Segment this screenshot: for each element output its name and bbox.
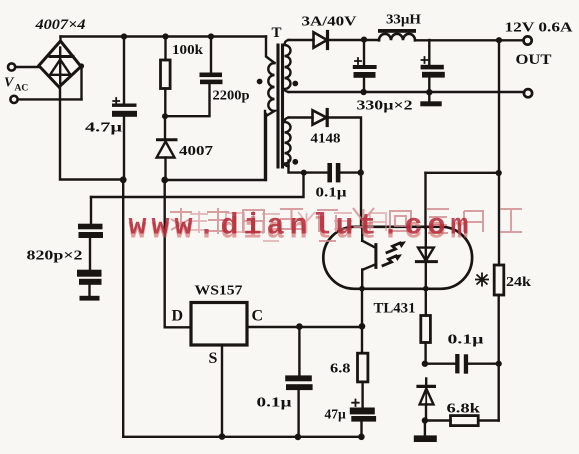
asterisk mark for 24k: [475, 273, 489, 287]
capacitor 820p upper: [78, 224, 103, 238]
node junction: [359, 323, 366, 330]
node junction: [162, 33, 168, 39]
wire 6.8k to anode node: [425, 419, 451, 421]
wire C4 bottom: [363, 78, 365, 92]
wire drain node to primary bottom: [165, 111, 265, 180]
ground 820p end bar: [80, 296, 100, 301]
opto light arrow 1: [387, 241, 406, 252]
wire opto emitter down to C pin net: [361, 289, 363, 327]
svg-text:0.1µ: 0.1µ: [316, 185, 347, 200]
wire D pin: [165, 326, 191, 328]
node junction: [208, 33, 214, 39]
wire primary bottom: [265, 114, 267, 180]
wire rail to R1: [164, 37, 166, 61]
transformer secondary winding S2 feedback: [285, 118, 291, 167]
node junction ref: [422, 361, 428, 367]
capacitor 330u first: [353, 58, 377, 78]
wire S1 top to D3: [289, 39, 314, 41]
wire D3 to L1: [328, 39, 380, 41]
node junction: [162, 113, 168, 119]
wire C2 bottom down: [123, 117, 125, 180]
wire: [15, 66, 39, 68]
wire between 820p caps: [89, 238, 91, 270]
wire TL431 anode: [425, 404, 427, 420]
shunt regulator TL431: [418, 379, 434, 405]
svg-text:330µ×2: 330µ×2: [357, 98, 413, 113]
wire S1 bottom rail: [289, 91, 525, 93]
wire LED feed horizontal: [426, 172, 499, 174]
IC U1 WS157: [191, 303, 247, 346]
opto-coupler U2 package: [323, 227, 472, 289]
wire bridge bottom down then right: [60, 88, 120, 180]
wire main left vertical down: [122, 180, 124, 437]
node AC input terminal top: [8, 63, 15, 70]
capacitor 4.7u: [112, 98, 137, 117]
node junction aux: [358, 169, 364, 175]
wire to C6: [304, 171, 328, 173]
wire S pin down: [221, 345, 223, 437]
capacitor 820p lower: [77, 270, 102, 285]
wire 6.8 to 47u: [361, 382, 363, 408]
svg-text:4148: 4148: [311, 131, 341, 146]
wire rail to C2 top: [123, 37, 125, 104]
resistor 6.8: [358, 353, 368, 382]
wire 24k bottom down: [498, 295, 500, 421]
svg-text:V: V: [4, 76, 15, 91]
wire bridge top to rail: [59, 37, 61, 42]
node junction: [358, 434, 365, 441]
svg-text:3A/40V: 3A/40V: [302, 14, 357, 29]
wire C7 branch: [298, 327, 300, 376]
wire: [18, 98, 82, 100]
svg-text:S: S: [209, 350, 218, 367]
capacitor 0.1u right: [455, 354, 468, 374]
wire L1 to output: [415, 39, 524, 41]
ground bar below C5: [420, 101, 441, 106]
wire 6.8 branch top: [361, 326, 363, 353]
svg-text:D: D: [172, 308, 184, 325]
capacitor 2200p: [200, 73, 223, 85]
wire C4 branch: [363, 40, 365, 65]
wire C8 to divider: [468, 363, 499, 365]
node S2 polarity dot: [292, 159, 298, 165]
wire rail to C3: [210, 37, 212, 73]
svg-text:100k: 100k: [172, 42, 204, 57]
wire y197 snubber net: [91, 173, 304, 197]
wire C3 bottom to R1 bottom: [165, 84, 210, 116]
node junction: [496, 37, 502, 43]
resistor 6.8k: [451, 416, 479, 426]
svg-text:OUT: OUT: [516, 52, 552, 68]
node AC input terminal bottom: [10, 96, 17, 103]
node junction anode: [422, 417, 428, 423]
opto light arrow 2: [383, 254, 402, 265]
wire anode to ground: [424, 421, 426, 436]
node output terminal minus: [524, 89, 532, 97]
svg-text:C: C: [252, 308, 264, 325]
wire divider bottom: [478, 419, 499, 421]
svg-text:820p×2: 820p×2: [27, 248, 83, 263]
svg-text:12V 0.6A: 12V 0.6A: [505, 20, 573, 35]
wire S2 bottom jog: [289, 161, 304, 173]
node bridge right vertex: [79, 63, 84, 68]
node junction drain: [161, 177, 168, 184]
node opto emitter oval crossing: [359, 286, 365, 292]
svg-text:6.8: 6.8: [330, 361, 351, 376]
svg-text:6.8k: 6.8k: [447, 401, 481, 416]
wire R1 bottom: [164, 89, 166, 117]
wire 12V vertical feed: [498, 40, 500, 265]
wire C7 bottom: [297, 390, 299, 437]
wire D2 anode down: [164, 158, 166, 181]
wire bias resistor to ref node: [424, 343, 426, 364]
node junction: [496, 170, 502, 176]
svg-text:TL431: TL431: [374, 301, 416, 317]
wire C6 right: [340, 171, 360, 173]
node junction: [361, 37, 367, 43]
diode 4148: [313, 110, 328, 126]
capacitor 47u: [350, 400, 376, 422]
svg-text:47µ: 47µ: [325, 407, 347, 422]
svg-text:33µH: 33µH: [386, 12, 422, 27]
node LED cathode oval crossing: [423, 286, 429, 292]
wire LED anode down: [424, 173, 426, 228]
transformer T core: [278, 45, 283, 167]
svg-text:4007: 4007: [179, 143, 213, 158]
diode 4007 clamp: [157, 140, 176, 158]
wire C5 bottom: [428, 78, 430, 92]
svg-text:0.1µ: 0.1µ: [257, 395, 292, 410]
node S1 polarity dot: [292, 81, 298, 87]
node primary polarity dot: [257, 79, 263, 85]
wire C5 branch: [428, 40, 430, 65]
node junction: [121, 33, 127, 39]
transistor opto phototransistor: [362, 227, 376, 289]
ground TL431: [414, 435, 437, 442]
svg-text:24k: 24k: [506, 274, 532, 289]
wire bridge right vertex down: [80, 66, 82, 99]
wire 47u bottom: [360, 422, 362, 437]
capacitor 330u second: [421, 57, 445, 78]
wire ref node to C8: [425, 363, 455, 365]
wire node to D2: [164, 116, 166, 139]
node output terminal plus: [524, 36, 532, 44]
svg-text:AC: AC: [15, 84, 29, 94]
svg-text:0.1µ: 0.1µ: [448, 332, 484, 347]
node junction divider tap: [496, 361, 502, 367]
svg-text:T: T: [272, 25, 282, 41]
wire S2 top to D4: [289, 116, 313, 118]
svg-text:WS157: WS157: [195, 283, 243, 298]
node junction S on rail: [219, 433, 226, 440]
wire D4 cathode right then down: [327, 118, 361, 228]
diode opto LED: [416, 227, 436, 316]
transformer primary winding: [266, 63, 275, 116]
wire C5 ground stub: [428, 92, 430, 101]
resistor 100k: [161, 60, 171, 89]
resistor TL431 bias: [421, 316, 431, 343]
watermark chinese overlay: [170, 208, 522, 241]
svg-text:4.7µ: 4.7µ: [85, 120, 122, 135]
wire 820p stub: [88, 285, 90, 296]
transformer secondary winding S1: [285, 40, 291, 92]
capacitor 0.1u at WS157: [285, 375, 312, 390]
wire bottom ground rail: [123, 436, 361, 438]
node junction: [295, 434, 302, 441]
svg-text:4007×4: 4007×4: [34, 17, 85, 33]
wire rail to primary top: [266, 37, 275, 64]
resistor 24k: [494, 265, 504, 295]
node junction: [296, 323, 303, 330]
capacitor 0.1u feedback: [327, 163, 340, 182]
node junction: [426, 89, 432, 95]
node junction: [301, 170, 307, 176]
wire drain node down to D pin: [163, 180, 165, 327]
svg-text:www.dianlut.com: www.dianlut.com: [129, 210, 474, 244]
diode 3A/40V: [314, 32, 328, 49]
node junction: [360, 89, 366, 95]
wire C pin net: [248, 326, 363, 328]
node junction: [120, 176, 127, 183]
svg-text:2200p: 2200p: [213, 88, 250, 103]
bridge rectifier 4007x4: [39, 41, 81, 87]
wire top rail: [61, 35, 267, 37]
wire 820p branch top: [90, 197, 92, 224]
inductor 33uH: [378, 29, 416, 40]
